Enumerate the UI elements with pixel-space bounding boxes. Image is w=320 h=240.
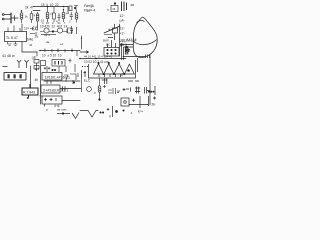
hash mark component: [125, 49, 130, 53]
svg-text:as max: as max: [57, 108, 67, 112]
svg-text:43: 43: [112, 7, 115, 11]
dot above RT843: [27, 97, 29, 99]
svg-text:µ4·: µ4·: [120, 19, 125, 23]
IF amplifier block U1: [5, 32, 27, 42]
resistor R6: [75, 10, 78, 23]
wire top supply bus: [33, 6, 68, 8]
small mark right of block: [69, 59, 72, 63]
transistor Q1: [44, 28, 49, 33]
wire waveform valley: [80, 111, 98, 118]
block + + 4: [42, 96, 62, 107]
vertical wire: [139, 96, 141, 108]
svg-text:10 02 10 2 41 cm: 10 02 10 2 41 cm: [84, 60, 109, 64]
wire speaker leads: [121, 44, 150, 60]
wire long AGC line: [80, 58, 126, 60]
dot top of R1: [21, 10, 22, 11]
svg-text:4: 4: [34, 14, 36, 18]
svg-text:4h: 4h: [35, 78, 39, 82]
speaker top fold: [137, 21, 145, 23]
dot near C4 lead: [117, 92, 118, 93]
wire vertical under box: [98, 78, 120, 100]
wire right column vertical: [119, 24, 121, 56]
wire top-left stub: [33, 10, 40, 12]
second small block in column: [34, 66, 39, 70]
wire collector Q2: [53, 29, 67, 33]
apex dot D2: [108, 62, 109, 63]
dot under bracket: [73, 82, 74, 83]
wire lower bus 2: [60, 88, 81, 90]
svg-text:R.T 843: R.T 843: [23, 91, 35, 95]
dash right mid col: [104, 34, 112, 36]
wire vertical x114: [114, 24, 116, 40]
capacitor C3: [70, 26, 73, 34]
wire to right bus: [147, 90, 150, 92]
antenna Y1: [3, 60, 29, 68]
tick bottom mid small: [109, 115, 111, 118]
plus bottom mid: [107, 108, 110, 111]
wire mid bus arrow: [80, 51, 89, 53]
dots ...: [148, 91, 149, 92]
dot top of R5: [63, 9, 64, 10]
base joint dot 2: [113, 73, 114, 74]
wire input vertical: [10, 13, 12, 23]
diode triangle D3: [114, 64, 124, 74]
plus mark left of box: [84, 71, 87, 74]
svg-text:ΔY: ΔY: [121, 73, 126, 77]
checkmark V small: [72, 113, 79, 119]
speaker cone blob outline: [133, 17, 157, 57]
svg-text:44 10 441 10 4·104 41: 44 10 441 10 4·104 41: [84, 54, 113, 58]
small marks right: [77, 73, 79, 77]
tick mid input: [14, 16, 16, 21]
junction dot speaker lead 2: [126, 46, 128, 48]
resistor R1: [20, 10, 23, 23]
svg-text:4a: 4a: [46, 40, 50, 44]
capacitor C4 bars: [108, 88, 115, 94]
svg-text:15 k 10 22: 15 k 10 22: [41, 3, 59, 7]
svg-text:µ7: µ7: [50, 12, 54, 16]
resistor R5: [62, 9, 65, 22]
block 2,,1: [41, 85, 60, 93]
svg-text:+2·: +2·: [120, 32, 125, 36]
svg-text:1k: 1k: [25, 15, 29, 19]
ground symbol 2: [14, 42, 18, 46]
svg-text:10: 10: [41, 19, 45, 23]
second right vertical: [154, 86, 156, 95]
base joint dot 3: [124, 73, 125, 74]
dot bottom: [123, 110, 125, 112]
coil bars: [145, 87, 147, 94]
bottom right component row: plus: [123, 87, 154, 94]
capacitor C2: [70, 12, 73, 20]
bar 3 inside tuner: [20, 74, 22, 78]
dot inside last triangle: [128, 70, 130, 72]
resistor R3: [46, 7, 49, 23]
block E1: [41, 59, 76, 73]
plus mark: [103, 85, 106, 88]
tick marks on mid bus: [45, 49, 77, 57]
wires into U1 top: [8, 26, 20, 32]
bottom right relay box: [121, 81, 156, 108]
dashes right of box bottom: [128, 80, 139, 82]
wire vertical 2 left of box: [84, 71, 86, 77]
svg-text:F§ø¤·4: F§ø¤·4: [84, 8, 95, 12]
dash dot mark: [57, 113, 79, 119]
ground symbol below U1: [8, 42, 18, 46]
wire collector Q1: [40, 31, 53, 33]
bar 2 inside tuner: [14, 74, 16, 78]
apex dot D3: [118, 62, 119, 63]
hatch ticks under speaker: [146, 55, 150, 59]
wire below R8: [99, 92, 101, 99]
svg-text:41 46 w: 41 46 w: [2, 54, 15, 58]
dot bottom mid: [116, 111, 118, 113]
svg-text:µ2: µ2: [66, 11, 70, 15]
wire segment under Q1: [41, 34, 56, 36]
dot node top right: [114, 3, 116, 5]
wire drop from bus: [67, 7, 69, 13]
svg-text:12·: 12·: [120, 14, 125, 18]
dots pair: [100, 112, 101, 113]
wire left mid vertical: [30, 66, 32, 88]
antenna Y2: [25, 60, 29, 68]
wire below TL box: [22, 42, 37, 56]
wire diagonal lead: [104, 26, 120, 33]
small crosses under: [44, 67, 50, 69]
svg-text:10 ± 5 10 10: 10 ± 5 10 10: [42, 54, 62, 58]
resistor R8 vertical: [98, 86, 101, 92]
small block top right: [111, 3, 118, 12]
wire left lower vertical: [40, 66, 42, 104]
wires into connector top: [108, 40, 116, 48]
dash left edge: [3, 66, 8, 68]
apex dot D1: [98, 62, 99, 63]
svg-text:a: a: [46, 108, 48, 112]
wire under speaker: [123, 56, 145, 58]
ticks under lower bus: [47, 81, 51, 84]
junction dots on buses: [27, 6, 97, 99]
svg-text:2k 47: 2k 47: [25, 6, 34, 10]
coil L1: [36, 12, 39, 24]
svg-text:6/4£: 6/4£: [27, 38, 33, 42]
svg-text:12+: 12+: [24, 27, 30, 31]
svg-text:12·: 12·: [120, 27, 125, 31]
svg-text:2&: 2&: [35, 35, 39, 39]
resistor R4: [53, 7, 56, 23]
verticals under box: [105, 78, 107, 84]
svg-text:2: 2: [69, 20, 71, 24]
svg-text:&c: &c: [106, 43, 110, 47]
svg-text:4¢: 4¢: [29, 43, 33, 47]
svg-text:TL 8.47: TL 8.47: [6, 36, 18, 40]
dash near block: [108, 37, 113, 39]
ticks under zigzag baseline: [99, 74, 121, 77]
wire volume pot stem: [21, 24, 23, 31]
svg-text:2+2···1#183;2···1#183;1: 2+2···1#183;2···1#183;1: [43, 89, 68, 93]
diode triangle D4: [124, 64, 134, 74]
wire input 1: [4, 14, 11, 16]
wire speaker lead horizontals: [122, 45, 134, 48]
small block right of Q2: [68, 28, 73, 33]
electrolytic C6 bars: [135, 87, 140, 94]
vertical wire 2: [148, 96, 150, 106]
dots under: [52, 69, 53, 70]
resistor R2: [30, 11, 33, 23]
wire vertical left of box: [82, 70, 121, 84]
tuner box with bars: [4, 73, 26, 81]
wire lower bus: [44, 80, 80, 82]
resistor R7 vertical: [125, 48, 128, 54]
dot below R8: [99, 99, 101, 101]
svg-text:+: +: [80, 37, 82, 41]
svg-text:2/4: 2/4: [35, 67, 40, 71]
diode triangle D2: [104, 64, 114, 74]
ticks on lower bus 2: [63, 87, 66, 91]
connector block with pins: [104, 24, 119, 56]
wire L1 down: [37, 24, 39, 30]
dot on lower bus: [65, 80, 66, 81]
transformer T1 windings: [122, 2, 127, 12]
svg-text:£¿C: £¿C: [84, 79, 91, 83]
wire bottom mid horizontal: [62, 100, 80, 102]
small block above connector: [113, 28, 118, 33]
svg-text:4 10 2 41 7: 4 10 2 41 7: [42, 21, 66, 25]
svg-text:2k·: 2k·: [152, 103, 156, 107]
dots left of box: [82, 66, 88, 68]
svg-text:j&: j&: [32, 55, 37, 60]
svg-text:a: a: [107, 8, 109, 12]
base joint dot 1: [103, 73, 104, 74]
output stage box: [82, 58, 138, 78]
block 1:5: [42, 73, 62, 81]
junction dot speaker lead 1: [121, 44, 123, 46]
wire B+ vertical: [81, 36, 83, 49]
wire right bus vertical: [149, 55, 151, 105]
plus far right: [153, 97, 156, 100]
svg-text:4: 4: [131, 111, 133, 115]
corner wire 7: [64, 73, 78, 84]
capacitor C1: [58, 13, 61, 21]
coil L2 spiral: [30, 27, 38, 30]
svg-text:¶™: ¶™: [138, 110, 143, 114]
marks right of U1: [8, 24, 38, 36]
bracket component: [70, 74, 76, 84]
svg-text:e1: e1: [60, 42, 64, 46]
wire bottom right horizontal: [129, 104, 148, 106]
input terminal J1: [2, 14, 4, 16]
bar 1 inside tuner: [8, 74, 10, 78]
svg-text:··a: ··a: [92, 91, 96, 95]
svg-text:4µ: 4µ: [108, 28, 112, 32]
vertical right of box: [137, 58, 139, 72]
speaker cone inner arc: [134, 40, 157, 45]
capacitor C5: [126, 88, 131, 92]
wire to first stage: [11, 17, 18, 19]
svg-text:o2·4: o2·4: [44, 33, 50, 37]
transistor Q2: [57, 28, 62, 33]
small block column left-mid: [34, 60, 39, 72]
bottom mid verticals: [100, 106, 118, 117]
input terminal J2: [2, 18, 4, 20]
tick near C3: [76, 27, 78, 34]
vertical drops: [47, 64, 75, 72]
dash under box: [102, 79, 108, 81]
plus near relay: [132, 99, 135, 102]
top cluster near x70: [69, 6, 78, 11]
lead of C4: [117, 90, 120, 92]
block with marks 1.4.1: [52, 60, 65, 67]
transistor Q3: [82, 78, 92, 92]
wire input 2: [4, 18, 11, 20]
dash mark near T1: [131, 4, 135, 6]
junction dot Q row: [52, 31, 54, 33]
diode triangle D1: [94, 64, 104, 74]
tick under block: [44, 104, 46, 107]
relay box RT843: [22, 84, 38, 98]
wire mid bus: [40, 50, 80, 52]
